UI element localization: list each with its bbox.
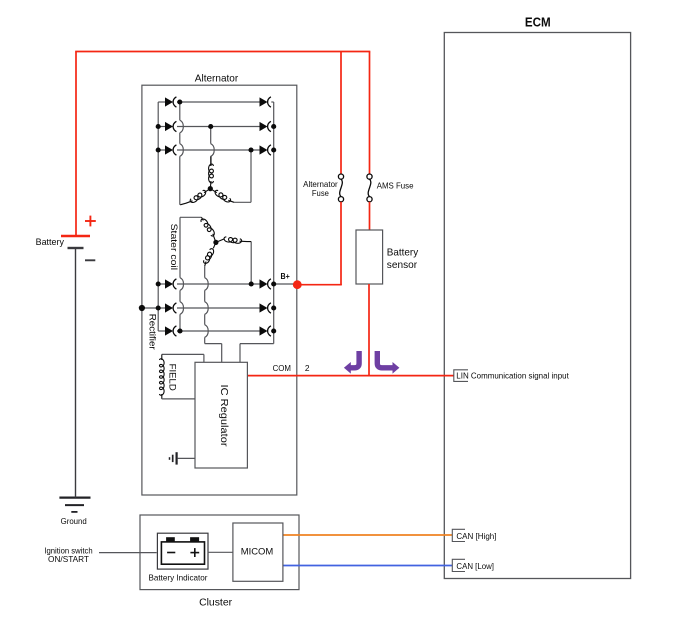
wire right bus to IC regulator — [240, 343, 274, 345]
IC regulator box U1 — [195, 362, 247, 468]
wire indicator to MICOM — [208, 551, 233, 553]
svg-text:Battery: Battery — [387, 247, 419, 258]
svg-text:CAN [Low]: CAN [Low] — [456, 561, 494, 571]
junction dot (273.7,150) — [271, 147, 276, 152]
wire AMS-fuse to sensor — [369, 202, 371, 230]
svg-text:sensor: sensor — [387, 260, 418, 271]
wire phase1 drop (row1 to coil1 left) — [179, 102, 181, 120]
battery BAT negative plate — [68, 247, 84, 249]
wire row B anode lead — [158, 307, 165, 309]
wire row C middle — [177, 330, 260, 332]
battery BAT positive plate — [61, 235, 90, 237]
wire row 1 cathode lead — [271, 101, 273, 103]
junction dot (158.2,150) — [156, 147, 161, 152]
terminal LIN input — [454, 370, 468, 382]
junction dot (273.7,284) — [271, 281, 276, 286]
stator coil Y2 bottom winding — [213, 242, 216, 248]
stator coil Y1 top winding — [210, 156, 212, 166]
stator coil Y2 top-left winding — [202, 217, 204, 220]
diode D-right-B — [260, 303, 268, 312]
wire row A cathode lead — [271, 283, 297, 285]
svg-text:Battery: Battery — [36, 237, 65, 248]
node coil Y2 center — [213, 240, 218, 245]
diode D-left-2 — [165, 122, 173, 131]
wire row C cathode lead — [271, 330, 273, 332]
svg-text:Cluster: Cluster — [199, 597, 232, 609]
wire left bus corner to row C — [158, 330, 165, 332]
wire right bus — [273, 102, 275, 344]
svg-text:AMS Fuse: AMS Fuse — [377, 181, 414, 190]
battery sensor box — [356, 230, 383, 284]
svg-text:FIELD: FIELD — [167, 364, 177, 391]
diode D-left-C — [165, 326, 173, 335]
field coil wire top — [162, 353, 204, 355]
battery BAT plus sign — [85, 216, 96, 227]
svg-text:Fuse: Fuse — [312, 189, 329, 198]
wire left bus — [157, 102, 159, 331]
wire phase3 rise (coil1 right to row3) — [250, 150, 252, 202]
junction dot (273.7,308) — [271, 305, 276, 310]
svg-text:B+: B+ — [281, 272, 291, 281]
wire CAN High — [283, 534, 452, 536]
junction dot (180,331) — [177, 328, 182, 333]
diode D-left-A — [165, 279, 173, 288]
cluster box — [140, 515, 299, 590]
diode D-right-1 — [260, 97, 268, 106]
junction dot (273.7,126.5) — [271, 124, 276, 129]
wire battery- to ground — [75, 248, 77, 498]
junction dot (179.8,102) — [177, 99, 182, 104]
wire row C anode lead — [164, 330, 166, 332]
wire sensor to LIN line — [368, 284, 370, 376]
junction dot (251,150) — [248, 147, 253, 152]
wire row 1 anode lead — [158, 101, 165, 103]
wire row 2 cathode lead — [271, 126, 273, 128]
junction dot (251.2,284) — [249, 281, 254, 286]
battery indicator symbol — [161, 542, 204, 564]
arrow LIN receive (left) — [351, 351, 360, 368]
wire row 3 cathode lead — [271, 149, 273, 151]
wire COM-LIN horizontal — [247, 375, 453, 377]
junction dot case ground — [139, 305, 145, 311]
battery BAT minus sign — [85, 259, 95, 261]
wire row 3 anode lead — [158, 149, 165, 151]
wire AMS-fuse drop upper — [369, 52, 371, 175]
battery indicator outer box — [157, 533, 208, 569]
svg-text:CAN [High]: CAN [High] — [456, 531, 496, 541]
wire row 2 middle — [177, 126, 260, 128]
ECM box — [444, 33, 630, 579]
diode D-right-3 — [260, 145, 268, 154]
junction dot (158.2,308) — [156, 305, 161, 310]
svg-text:2: 2 — [305, 363, 310, 373]
svg-text:IC Regulator: IC Regulator — [218, 385, 229, 448]
wire ignition switch — [99, 552, 157, 554]
node B+ junction — [293, 280, 302, 289]
svg-text:Alternator: Alternator — [303, 180, 338, 189]
junction dot (273.7,331) — [271, 328, 276, 333]
stator coil Y2 right winding — [216, 239, 225, 243]
junction dot (210.7,126.5) — [208, 124, 213, 129]
junction dot (158.2,284) — [156, 281, 161, 286]
svg-text:COM: COM — [273, 363, 291, 373]
wire coil2 right vertical (to row A) — [250, 242, 252, 284]
arrow LIN transmit (right) — [377, 351, 392, 368]
diode D-right-C — [260, 326, 268, 335]
fuse F1 Alternator Fuse — [338, 174, 343, 202]
diode D-right-2 — [260, 122, 268, 131]
wire row A middle — [177, 283, 260, 285]
svg-text:Stater coil: Stater coil — [168, 224, 179, 270]
ground symbol — [59, 498, 90, 512]
wire coil2 left arm horizontal — [180, 216, 202, 218]
diode D-right-A — [260, 279, 268, 288]
wire B+ to fuse horizontal — [297, 284, 342, 286]
wire battery+ vertical — [75, 52, 77, 237]
wire row B middle — [177, 307, 260, 309]
diode D-left-1 — [165, 97, 173, 106]
fuse F2 AMS Fuse — [367, 174, 372, 202]
svg-text:Ground: Ground — [61, 516, 87, 526]
wire alternator-fuse drop lower — [340, 202, 342, 285]
field coil wire bottom — [162, 398, 195, 400]
alternator box — [142, 85, 297, 495]
wire CAN Low — [283, 565, 452, 567]
wire phase2 drop (row2 to coil1 top) — [210, 127, 212, 144]
diode D-left-3 — [165, 145, 173, 154]
svg-text:MICOM: MICOM — [241, 547, 274, 557]
terminal CAN Low — [452, 559, 465, 571]
node coil Y1 center — [208, 186, 213, 191]
diode D-left-B — [165, 303, 173, 312]
MICOM box — [233, 523, 283, 581]
svg-text:Alternator: Alternator — [195, 73, 239, 85]
svg-text:LIN Communication signal input: LIN Communication signal input — [456, 371, 569, 381]
svg-text:ON/START: ON/START — [48, 555, 89, 564]
wire row B cathode lead — [271, 307, 273, 309]
junction dot (158.2,126.5) — [156, 124, 161, 129]
stator coil Y1 right winding — [210, 189, 217, 193]
wire alternator-fuse drop upper — [340, 52, 342, 175]
svg-text:Battery Indicator: Battery Indicator — [149, 574, 208, 583]
wire row A anode lead — [158, 283, 165, 285]
field coil L1 — [161, 354, 163, 360]
wire row 2 anode lead — [158, 126, 165, 128]
wire coil2 left vertical (to row C) — [179, 217, 181, 277]
wire top horizontal B+ feed — [75, 51, 370, 53]
stator coil Y1 left winding — [204, 189, 210, 193]
svg-text:Rectifier: Rectifier — [146, 314, 157, 350]
wire row B case lead — [142, 307, 158, 309]
wire coil2 bottom drop (to IC regulator) — [204, 266, 206, 278]
IC regulator ground — [170, 452, 177, 464]
wire row 1 middle — [177, 101, 260, 103]
terminal CAN High — [452, 529, 465, 541]
svg-text:ECM: ECM — [525, 16, 551, 30]
wire row 3 middle — [177, 149, 260, 151]
